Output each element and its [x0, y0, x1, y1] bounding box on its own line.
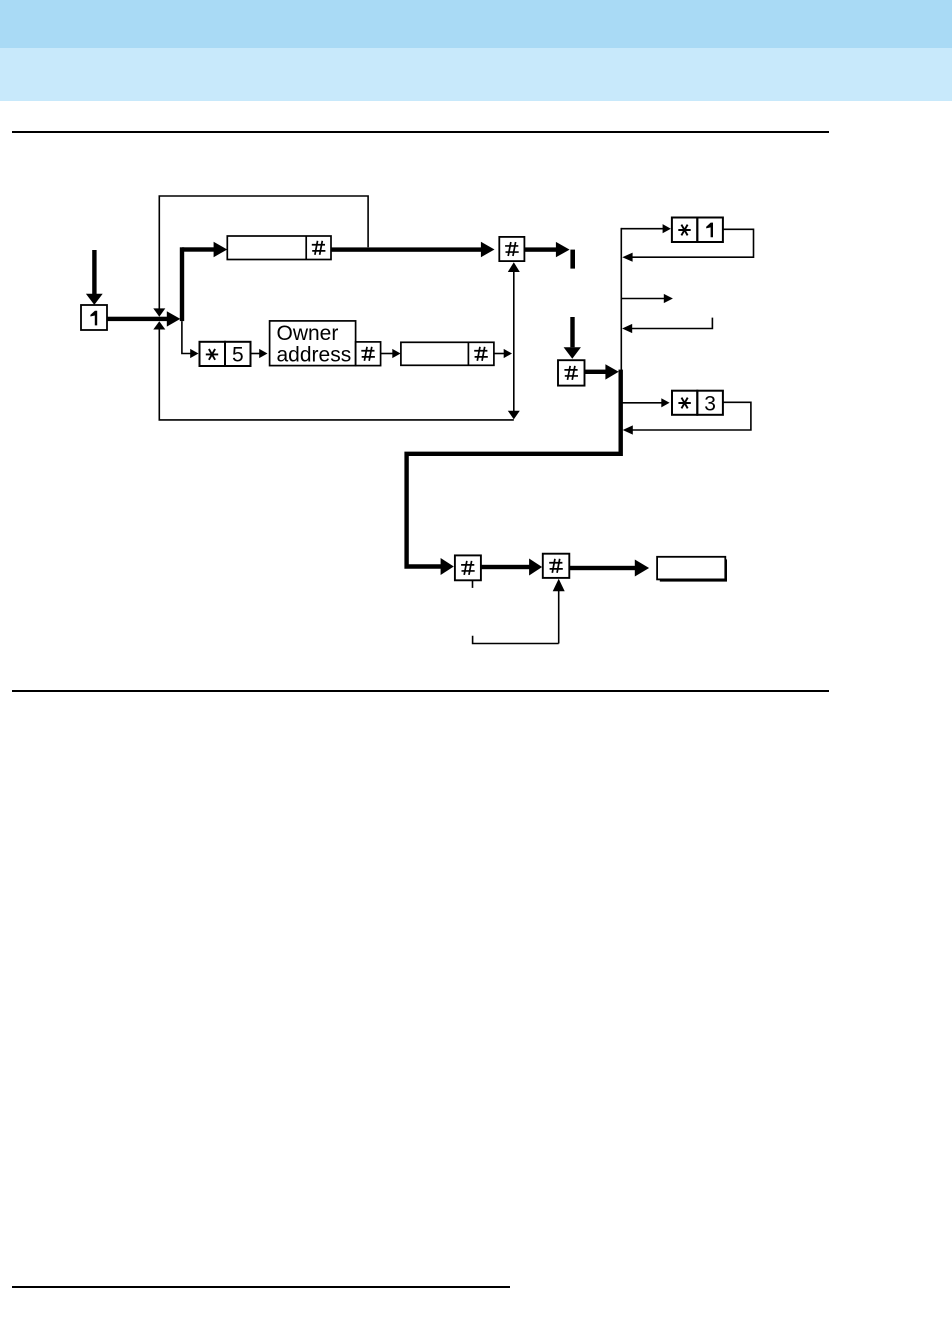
# box (confirm): [499, 237, 524, 261]
key box 5: [225, 342, 251, 367]
# key box E: [543, 554, 570, 578]
entry box (blank + #): [227, 236, 331, 260]
vertical wire with two arrowheads: [513, 271, 515, 411]
thick wire E to result: [569, 566, 635, 570]
section rule: [12, 690, 829, 692]
thick wire entry box to # box: [331, 247, 481, 251]
wire junction down to lower branch: [182, 321, 191, 353]
code box (blank + #): [401, 342, 494, 365]
branch wire to *3: [622, 402, 662, 404]
# box after owner address: [356, 342, 381, 366]
arrowhead up into E: [553, 579, 565, 591]
key box * (star 5): [200, 342, 226, 366]
box 1 (dial key 1): [81, 305, 107, 330]
thick arrowhead into vertical: [605, 364, 618, 379]
tick below # key D: [472, 580, 474, 588]
thick arrowhead at end bar: [556, 242, 570, 257]
key box * (star 3): [672, 391, 697, 415]
thick wire to entry box: [182, 247, 214, 251]
key box 3: [697, 391, 723, 416]
arrowhead into *1: [663, 224, 671, 233]
loop wire bottom left (return to junction): [159, 330, 514, 420]
key box * (star 1): [672, 218, 697, 243]
footnote rule: [12, 1286, 510, 1287]
arrowhead into *3: [661, 398, 669, 407]
thick arrowhead into # box: [481, 242, 495, 257]
arrowhead up into # box: [508, 262, 520, 272]
key box 1 (right): [697, 218, 723, 243]
# key box (right column): [558, 360, 585, 385]
wire 5 to owner address: [251, 353, 260, 355]
return wire from *1: [632, 229, 753, 257]
arrowhead into owner address: [259, 349, 267, 358]
arrowhead plain branch: [664, 294, 673, 303]
branch plain arrow: [621, 298, 664, 300]
arrowhead down into junction: [153, 308, 165, 316]
arrowhead into code box: [392, 349, 400, 358]
arrowhead down to return loop: [508, 411, 520, 420]
thick wire junction up: [180, 247, 184, 321]
svg-text:5: 5: [232, 344, 244, 367]
# key box D: [455, 555, 481, 580]
result display box with shadow: [657, 557, 727, 582]
thick down arrow to # key: [564, 317, 581, 359]
thick wire box1 to junction: [107, 317, 168, 321]
arrowhead left incoming: [622, 324, 632, 333]
wire code box to vertical: [494, 353, 504, 355]
right column vertical thin wire: [620, 228, 622, 371]
thick arrowhead into entry box: [214, 242, 228, 257]
arrowhead at vertical: [504, 349, 512, 358]
end bar: [570, 250, 575, 269]
header band light blue: [0, 48, 952, 101]
arrowhead up into junction from below: [153, 321, 165, 329]
svg-text:Owner: Owner: [277, 322, 339, 345]
loop wire top (entry box output back to junction): [159, 196, 368, 309]
thick vertical wire down: [619, 370, 623, 456]
arrowhead left from *3 return: [623, 425, 633, 434]
return wire from *3: [632, 402, 751, 430]
thick arrowhead at junction: [167, 311, 181, 326]
svg-text:3: 3: [704, 392, 716, 415]
branch wire to *1: [621, 228, 663, 230]
thick elbow wire down-left-down: [407, 454, 621, 567]
up arrow wire into # key E: [558, 591, 560, 644]
thick wire # box to end bar: [524, 247, 556, 251]
thick arrowhead into result box: [635, 560, 649, 577]
incoming wire with tick: [632, 318, 713, 329]
owner address box: [270, 321, 356, 366]
thick wire # key to vertical: [585, 370, 607, 374]
header band dark blue: [0, 0, 952, 48]
top rule: [12, 131, 829, 134]
arrowhead into * box: [190, 349, 198, 358]
thick arrowhead into # key D: [441, 558, 454, 575]
wire # to code box: [381, 353, 393, 355]
start arrow (thick down arrow): [86, 250, 103, 305]
svg-text:address: address: [277, 343, 352, 366]
thick arrowhead into # key E: [529, 559, 542, 576]
thick wire D to E: [481, 565, 530, 569]
hook wire bottom: [473, 636, 559, 644]
arrowhead left from *1 return: [622, 253, 632, 262]
